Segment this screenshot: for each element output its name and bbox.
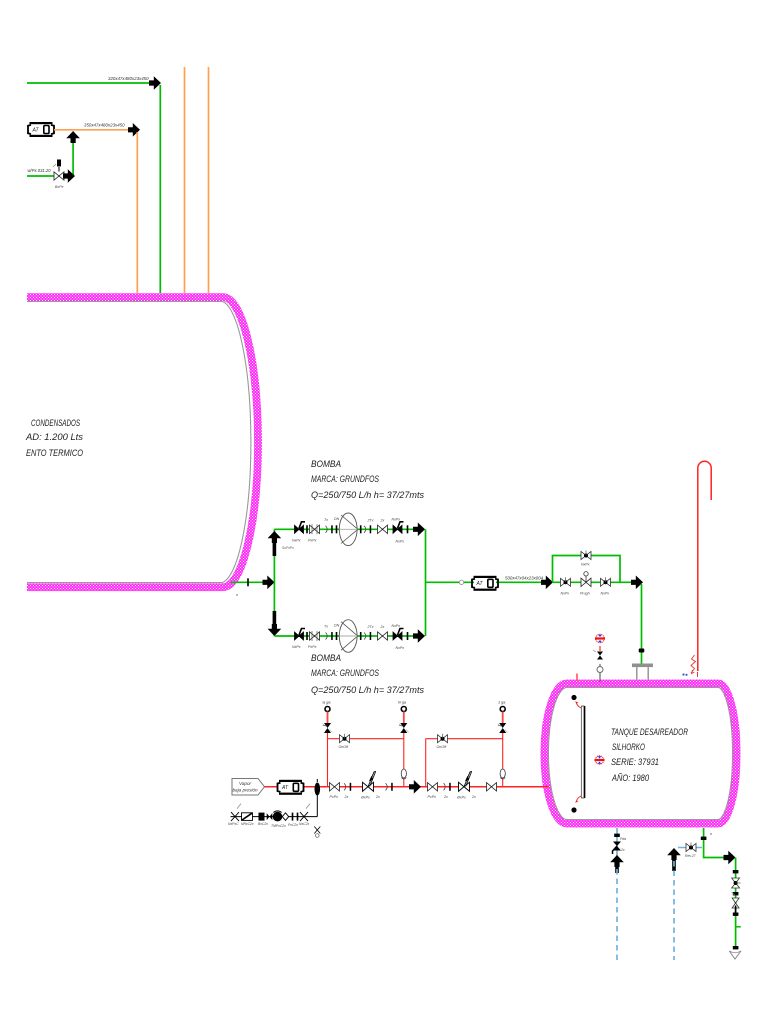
check valve C3 bbox=[326, 632, 333, 640]
wire: bypass 1 bbox=[328, 738, 404, 740]
junction dot bbox=[614, 834, 620, 837]
svg-text:OnOff: OnOff bbox=[437, 745, 448, 749]
valve V8 black lever bbox=[392, 624, 405, 650]
svg-text:NxPx: NxPx bbox=[581, 563, 590, 567]
blue dots bbox=[682, 673, 687, 676]
red squiggle vent bbox=[691, 655, 698, 677]
svg-text:500x47x04x23x004: 500x47x04x23x004 bbox=[505, 576, 544, 581]
svg-text:PxPx: PxPx bbox=[330, 795, 339, 799]
labels under drain line bbox=[228, 822, 309, 828]
svg-text:NxPx: NxPx bbox=[392, 624, 401, 628]
label RV1 bbox=[322, 701, 330, 705]
tick bbox=[360, 632, 362, 640]
svg-text:Pda: Pda bbox=[620, 837, 626, 841]
wire: manifold right header bbox=[425, 529, 427, 636]
svg-text:NRxC2x: NRxC2x bbox=[241, 822, 254, 826]
svg-text:2x: 2x bbox=[380, 518, 385, 522]
tank T2 inner gray outline bbox=[549, 688, 733, 820]
svg-text:2Tx: 2Tx bbox=[367, 625, 374, 629]
svg-text:NxC2x: NxC2x bbox=[299, 822, 309, 826]
svg-text:NxPx: NxPx bbox=[292, 645, 301, 649]
trap D5 bbox=[273, 811, 283, 822]
svg-text:NxPx: NxPx bbox=[292, 539, 301, 543]
wire: green vertical link bbox=[72, 143, 74, 176]
svg-text:ØxPx: ØxPx bbox=[456, 795, 466, 799]
diamond D6 bbox=[282, 813, 288, 821]
svg-text:MARCA: GRUNDFOS: MARCA: GRUNDFOS bbox=[311, 668, 380, 678]
junction dot bbox=[733, 913, 739, 916]
tick bbox=[336, 525, 338, 533]
wire: top green supply line bbox=[27, 82, 153, 84]
bonnet on riser D bbox=[500, 769, 505, 779]
junction dot bbox=[701, 837, 707, 840]
svg-text:SERIE: 37931: SERIE: 37931 bbox=[611, 757, 659, 767]
wire: orange line from AT-1 bbox=[54, 129, 132, 131]
svg-text:350x47x480x23x450: 350x47x480x23x450 bbox=[84, 123, 125, 128]
arrow A9 bbox=[413, 629, 425, 643]
valve V1 black lever bbox=[295, 522, 306, 534]
X valve D1 bbox=[231, 804, 241, 822]
label RV3 bbox=[498, 701, 505, 705]
wire: green blowdown drop bbox=[735, 858, 737, 949]
pump P1 bbox=[339, 513, 357, 546]
svg-text:n: n bbox=[710, 832, 712, 836]
svg-text:CONDENSADOS: CONDENSADOS bbox=[31, 418, 81, 428]
svg-text:320x47x480x23x450: 320x47x480x23x450 bbox=[108, 76, 149, 81]
svg-text:OnOff: OnOff bbox=[339, 745, 350, 749]
svg-text:SxPxPx: SxPxPx bbox=[282, 546, 294, 550]
svg-text:¾ ga: ¾ ga bbox=[322, 701, 330, 705]
junction dot bbox=[733, 870, 739, 873]
label: orange line size bbox=[84, 123, 125, 128]
arrow A5 bbox=[263, 576, 275, 590]
tick bbox=[407, 632, 409, 640]
check valve C4 bbox=[364, 625, 374, 640]
svg-text:TMPxC2x: TMPxC2x bbox=[271, 824, 286, 828]
label: BOMBA upper bbox=[311, 459, 424, 500]
svg-text:NxPxC: NxPxC bbox=[228, 822, 239, 826]
svg-text:2x: 2x bbox=[380, 625, 385, 629]
X valve D8 bbox=[300, 804, 310, 822]
wire: tank T1 outlet green bbox=[231, 581, 266, 583]
svg-text:1 ga: 1 ga bbox=[498, 701, 505, 705]
arrow A2 bbox=[128, 123, 140, 137]
wire: bypass loop bbox=[553, 556, 621, 583]
tank T1 condensate wall band bbox=[27, 297, 258, 587]
svg-text:PxPx: PxPx bbox=[308, 539, 317, 543]
wire: valve station main bbox=[553, 581, 631, 583]
wire: red main steam line bbox=[265, 786, 550, 788]
tank T1 inner gray outline bbox=[27, 302, 251, 583]
wire: discharge line to deaerator bbox=[426, 581, 546, 583]
square fitting D3 bbox=[259, 813, 265, 821]
svg-text:2x: 2x bbox=[443, 795, 448, 799]
valve V0 with actuator bbox=[53, 160, 64, 181]
svg-text:Tx: Tx bbox=[324, 518, 328, 522]
wire: blue link to green bbox=[678, 847, 702, 849]
instrument PI-2 red/blue bbox=[595, 756, 605, 764]
svg-text:N ga: N ga bbox=[398, 701, 406, 705]
label: valve V0 tag bbox=[55, 185, 64, 189]
valve V9 bbox=[561, 577, 571, 595]
instrument AT-1 bbox=[28, 122, 54, 137]
relief valve RV3 bbox=[498, 707, 508, 734]
wire: orange riser 2 to tank T1 bbox=[208, 67, 210, 293]
wire: green drop to tank T1 bbox=[159, 85, 161, 293]
wire: manifold left header bbox=[273, 529, 275, 636]
label: V5 V6 tags bbox=[292, 645, 317, 649]
banner: Vapor baja presion bbox=[232, 779, 265, 796]
green stub bbox=[736, 926, 741, 928]
wire: orange riser 1 to tank T1 bbox=[184, 67, 186, 293]
wire: red line into tank T2 bbox=[508, 786, 548, 788]
valve V11 bbox=[601, 577, 611, 595]
valve RB2 on bypass bbox=[437, 734, 448, 750]
svg-text:NxPx: NxPx bbox=[601, 591, 610, 595]
svg-text:NxPx: NxPx bbox=[392, 517, 401, 521]
svg-text:ENTO TERMICO: ENTO TERMICO bbox=[26, 448, 83, 458]
tick bbox=[306, 632, 308, 640]
wire: small green feed line bbox=[27, 175, 64, 177]
ticks D7 bbox=[292, 813, 294, 821]
wire: pump branch lower bbox=[274, 635, 417, 637]
label n bbox=[710, 832, 712, 836]
junction dot bbox=[733, 892, 739, 895]
svg-text:Q=250/750 L/h h= 37/27mts: Q=250/750 L/h h= 37/27mts bbox=[311, 685, 424, 695]
arrow A4 bbox=[63, 169, 75, 183]
svg-text:SILHORKO: SILHORKO bbox=[612, 742, 645, 752]
wire: pump branch upper bbox=[274, 528, 417, 530]
valve V7 bbox=[378, 625, 388, 640]
label above C3 bbox=[324, 624, 340, 629]
valve V6 union bbox=[310, 631, 320, 641]
valve RV-b bbox=[428, 783, 438, 799]
control valve CV2 bbox=[456, 771, 476, 799]
svg-text:NxPx: NxPx bbox=[396, 539, 405, 543]
wire: green drop from tank T2 bottom bbox=[704, 828, 724, 858]
label: tank T2 text bbox=[611, 727, 688, 783]
arrow A14 up bbox=[667, 848, 681, 871]
valve RV-c bbox=[487, 783, 497, 791]
label: BOMBA lower bbox=[311, 653, 424, 695]
arrow A7 down bbox=[268, 611, 282, 636]
tick bbox=[306, 525, 308, 533]
svg-text:DN: DN bbox=[334, 624, 340, 628]
PSV assembly on tank top bbox=[593, 646, 603, 682]
strainer D2 bbox=[242, 813, 253, 821]
valve RB1 on bypass bbox=[339, 734, 350, 750]
valve VB1 on bypass bbox=[581, 551, 591, 567]
svg-text:PxPx: PxPx bbox=[308, 645, 317, 649]
label near A6 bbox=[282, 546, 294, 550]
wire: red vent pipe with hook bbox=[698, 461, 711, 671]
svg-text:BxPx: BxPx bbox=[55, 185, 64, 189]
svg-text:NxPx: NxPx bbox=[396, 646, 405, 650]
tick bbox=[407, 525, 409, 533]
relief valve RV1 bbox=[323, 707, 333, 734]
wire: orange drop to tank T1 bbox=[136, 132, 138, 293]
check RC3 bbox=[443, 783, 451, 799]
tick bbox=[336, 632, 338, 640]
label above C1 bbox=[324, 517, 340, 522]
valve V3 bbox=[378, 518, 388, 533]
bowtie D4 bbox=[267, 813, 273, 820]
check valve C1 bbox=[326, 525, 333, 533]
relief riser B bbox=[403, 733, 405, 787]
check RC2 bbox=[386, 783, 393, 791]
wire: drop into deaerator nozzle bbox=[641, 584, 643, 664]
wire: blue drain 2 dashed bbox=[673, 861, 675, 960]
label RV2 bbox=[398, 701, 406, 705]
tick bbox=[735, 906, 737, 914]
svg-text:BxC2x: BxC2x bbox=[258, 822, 268, 826]
relief riser C bbox=[425, 739, 427, 787]
svg-text:baja presión: baja presión bbox=[232, 788, 257, 793]
arrow A12 bbox=[409, 780, 421, 794]
arrow A10 bbox=[541, 576, 553, 590]
drain funnel bbox=[729, 951, 741, 959]
tick bbox=[360, 525, 362, 533]
small drain valve below bbox=[314, 827, 320, 838]
svg-text:2x: 2x bbox=[620, 848, 625, 852]
svg-text:Tx: Tx bbox=[324, 625, 328, 629]
arrow A8 bbox=[413, 523, 425, 537]
svg-text:Rev.27: Rev.27 bbox=[685, 854, 696, 858]
svg-text:PxC2x: PxC2x bbox=[288, 823, 298, 827]
valve V4 black lever bbox=[392, 517, 405, 543]
arrow A6 up bbox=[268, 531, 282, 556]
black inline sensor bbox=[315, 779, 321, 796]
control valve CV1 bbox=[360, 771, 380, 799]
svg-text:BOMBA: BOMBA bbox=[311, 459, 341, 469]
valve V5 black lever bbox=[295, 629, 306, 641]
wire: bypass 2 bbox=[426, 738, 503, 740]
label: V1 V2 tags bbox=[292, 539, 317, 543]
svg-text:ØxPx: ØxPx bbox=[360, 795, 370, 799]
svg-text:AD: 1.200 Lts: AD: 1.200 Lts bbox=[25, 432, 83, 442]
svg-text:NxPx: NxPx bbox=[561, 591, 570, 595]
black valve on blue 1 bbox=[613, 837, 627, 854]
svg-text:2x: 2x bbox=[471, 795, 476, 799]
check valve C2 bbox=[364, 518, 374, 533]
junction dot bbox=[639, 649, 645, 653]
arrow A11 bbox=[631, 576, 643, 590]
red stub on tank top bbox=[576, 674, 578, 682]
valve V2 union bbox=[310, 524, 320, 534]
tank T2 nozzle bbox=[632, 664, 653, 681]
instrument AT-2 bbox=[472, 576, 498, 591]
svg-text:w/Px.031.20: w/Px.031.20 bbox=[28, 168, 52, 173]
arrow A13 up bbox=[610, 855, 624, 873]
svg-text:Vapor: Vapor bbox=[239, 781, 252, 786]
svg-text:DN: DN bbox=[334, 517, 340, 521]
valve BD1 bbox=[732, 878, 741, 888]
svg-text:Q=250/750 L/h h= 37/27mts: Q=250/750 L/h h= 37/27mts bbox=[311, 490, 424, 500]
arrow A3 up into orange line bbox=[66, 131, 80, 143]
deaerator tank T2 wall band bbox=[545, 684, 737, 824]
level gauge LG bbox=[571, 695, 584, 813]
check RC1 bbox=[344, 783, 352, 799]
svg-text:Prugh: Prugh bbox=[580, 591, 590, 595]
valve on blue link bbox=[685, 843, 696, 859]
label: discharge line size bbox=[505, 576, 544, 581]
svg-text:MARCA: GRUNDFOS: MARCA: GRUNDFOS bbox=[311, 474, 380, 484]
svg-text:BOMBA: BOMBA bbox=[311, 653, 341, 663]
relief riser D bbox=[502, 733, 504, 787]
valve RV-a bbox=[330, 783, 340, 799]
junction dot bbox=[733, 946, 739, 949]
tick on outlet bbox=[247, 578, 249, 586]
instrument PSV red/blue circle bbox=[595, 634, 605, 642]
wire: blue drain 1 solid bbox=[616, 828, 618, 858]
label: tank T1 text bbox=[25, 418, 83, 458]
wire: blue drain 1 dashed bbox=[616, 869, 618, 960]
label: small feed line bbox=[28, 168, 52, 173]
svg-text:2x: 2x bbox=[344, 795, 349, 799]
svg-text:PxPx: PxPx bbox=[428, 795, 437, 799]
relief valve RV2 bbox=[399, 707, 409, 734]
svg-text:n: n bbox=[236, 593, 238, 597]
bonnet on riser B bbox=[401, 769, 406, 779]
valve V10 globe bbox=[580, 572, 591, 596]
relief riser A bbox=[327, 733, 329, 787]
label: outlet tag bbox=[236, 593, 238, 597]
svg-text:2x: 2x bbox=[375, 795, 380, 799]
svg-text:AÑO: 1980: AÑO: 1980 bbox=[611, 773, 650, 783]
svg-text:2Tx: 2Tx bbox=[367, 518, 374, 522]
instrument AT-3 bbox=[278, 780, 304, 795]
fitting circle bbox=[459, 580, 463, 584]
angle valve BD2 bbox=[732, 892, 740, 908]
pump P2 bbox=[339, 620, 357, 653]
svg-text:TANQUE DESAIREADOR: TANQUE DESAIREADOR bbox=[611, 727, 688, 737]
arrow A1 bbox=[149, 76, 161, 90]
label: top line size bbox=[108, 76, 149, 81]
black drain subline bbox=[231, 796, 318, 817]
arrow A15 bbox=[724, 851, 736, 865]
